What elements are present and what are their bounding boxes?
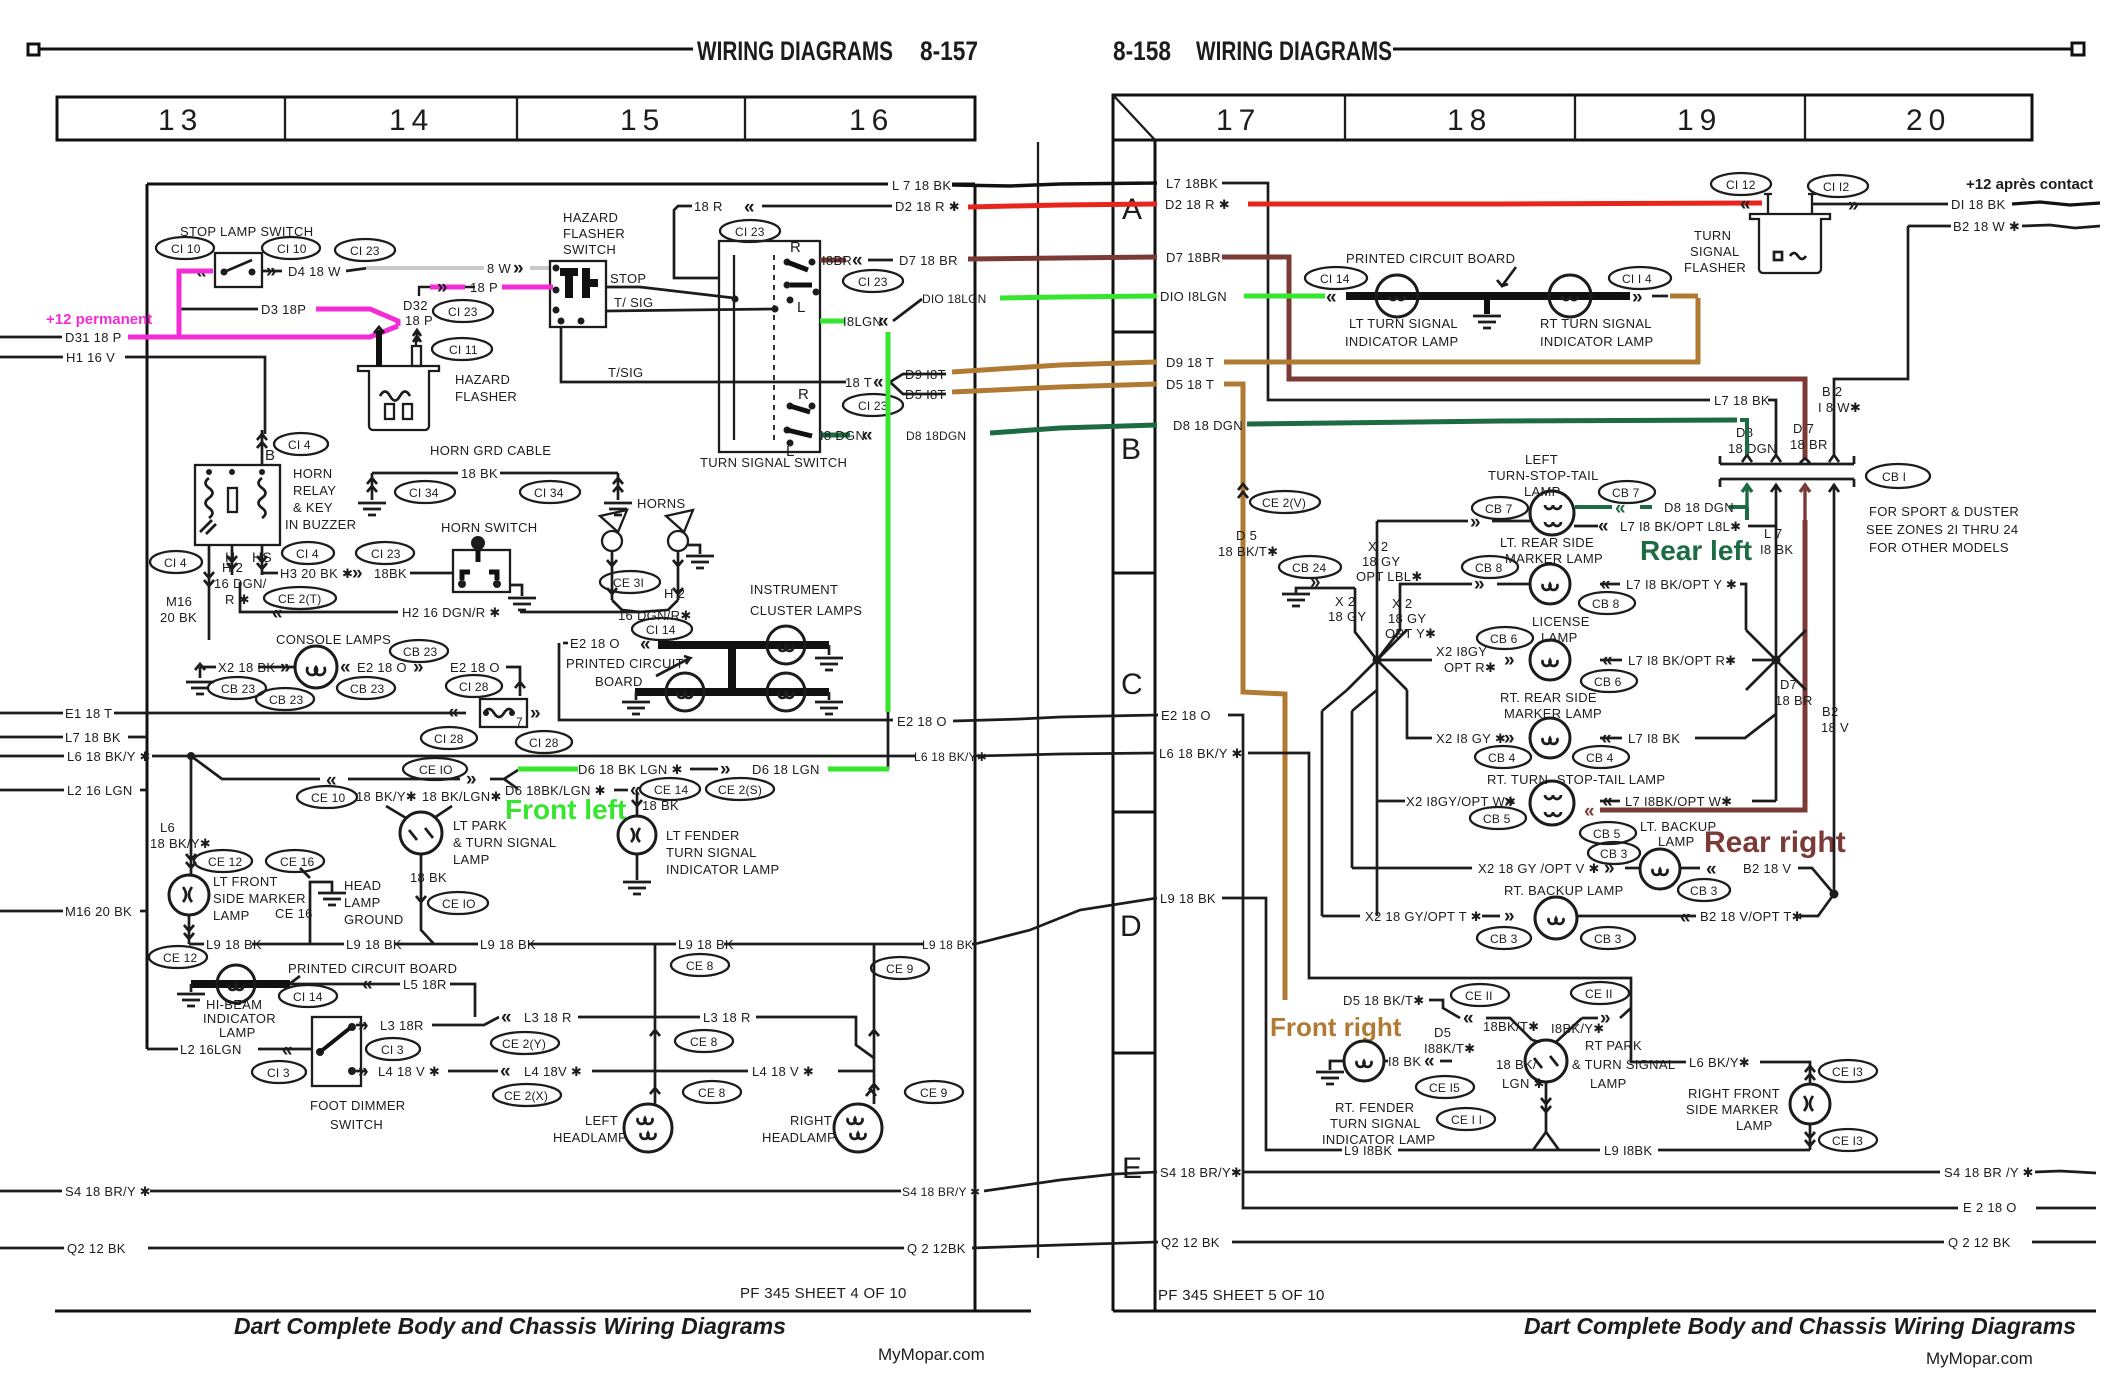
svg-text:L2 16LGN: L2 16LGN (180, 1042, 242, 1057)
connector CI 3 (366, 1038, 420, 1060)
svg-text:7: 7 (516, 715, 523, 729)
svg-text:CE 16: CE 16 (275, 906, 313, 921)
svg-text:19: 19 (1677, 104, 1722, 137)
svg-text:B2: B2 (1822, 704, 1839, 719)
svg-text:«: « (744, 197, 755, 218)
wire E2 18O to cluster (559, 643, 893, 720)
svg-text:RELAY: RELAY (293, 483, 336, 498)
svg-text:CB 8: CB 8 (1475, 561, 1503, 575)
svg-text:BOARD: BOARD (595, 674, 643, 689)
svg-text:X2 18 GY /OPT V ✱: X2 18 GY /OPT V ✱ (1478, 861, 1600, 876)
svg-text:L9 18 BK: L9 18 BK (1160, 891, 1216, 906)
svg-text:H3 20 BK ✱: H3 20 BK ✱ (280, 566, 353, 581)
turn signal switch (719, 241, 820, 452)
svg-text:GROUND: GROUND (344, 912, 404, 927)
wire L9 18BK crossing (975, 898, 1157, 944)
svg-text:E 2 18 O: E 2 18 O (1963, 1200, 2017, 1215)
svg-text:INSTRUMENT: INSTRUMENT (750, 582, 838, 597)
svg-text:LAMP: LAMP (1590, 1076, 1627, 1091)
svg-text:CI 23: CI 23 (371, 547, 401, 561)
wire L6 18BK/Y crossing (975, 753, 1156, 756)
ground right of horn cable (604, 503, 632, 515)
wire D31 18P left stub (0, 336, 62, 339)
relay pin H (227, 545, 237, 575)
svg-text:CI 23: CI 23 (858, 275, 888, 289)
svg-text:«: « (1584, 801, 1595, 822)
svg-text:LT FRONT: LT FRONT (213, 874, 278, 889)
svg-text:FLASHER: FLASHER (455, 389, 517, 404)
rear lamp left rail (1376, 521, 1379, 916)
svg-text:CE 9: CE 9 (920, 1086, 948, 1100)
svg-text:I8 DGN: I8 DGN (820, 428, 865, 443)
svg-text:13: 13 (158, 104, 203, 137)
svg-text:L9 18 BK: L9 18 BK (678, 937, 734, 952)
svg-text:IN BUZZER: IN BUZZER (285, 517, 356, 532)
svg-text:CB 7: CB 7 (1485, 502, 1513, 516)
svg-text:18 P: 18 P (470, 280, 498, 295)
wire B2 below CB1 (1833, 520, 1836, 894)
wire 18W grey (346, 268, 368, 271)
svg-text:D5 18 BK/T✱: D5 18 BK/T✱ (1343, 993, 1424, 1008)
svg-text:8-157: 8-157 (920, 36, 978, 66)
svg-text:«: « (448, 702, 459, 723)
svg-text:»: » (1848, 195, 1859, 216)
svg-text:B2 18 V: B2 18 V (1743, 861, 1791, 876)
svg-text:Q2 12 BK: Q2 12 BK (67, 1241, 126, 1256)
svg-text:»: » (266, 261, 277, 282)
svg-text:CB 23: CB 23 (269, 693, 303, 707)
svg-text:FLASHER: FLASHER (563, 226, 625, 241)
wire D6 assembly (191, 756, 460, 779)
svg-text:L: L (797, 299, 806, 316)
connector CI 14 (279, 985, 337, 1007)
connector CE 10 upper (403, 758, 467, 780)
wire H1 16V (0, 356, 63, 359)
connector CB 4 left (1475, 746, 1531, 768)
svg-text:LICENSE: LICENSE (1532, 614, 1590, 629)
svg-text:LEFT: LEFT (585, 1113, 618, 1128)
connector CI 4 top of horn relay (274, 433, 328, 455)
svg-text:CE I3: CE I3 (1832, 1065, 1863, 1079)
svg-text:CI 23: CI 23 (858, 399, 888, 413)
lt fender turn signal indicator lamp (632, 792, 642, 816)
printed circuit board bus lower (635, 688, 829, 696)
svg-text:«: « (282, 1040, 293, 1061)
svg-text:CE I I: CE I I (1451, 1113, 1482, 1127)
svg-text:L4 18V ✱: L4 18V ✱ (524, 1064, 582, 1079)
wire D2 18R crossing (762, 205, 892, 208)
connector CB 23 ovals (208, 677, 266, 699)
svg-text:R ✱: R ✱ (225, 592, 250, 607)
svg-text:18 R: 18 R (694, 199, 723, 214)
connector CE 2(S) (706, 778, 774, 800)
connector CI 4 left (150, 551, 202, 573)
horn relay and key-in buzzer (195, 465, 280, 545)
svg-text:CB 23: CB 23 (350, 682, 384, 696)
svg-text:CE 2(S): CE 2(S) (718, 783, 762, 797)
svg-text:Front right: Front right (1270, 1012, 1402, 1042)
connector CE 15 (1416, 1076, 1474, 1098)
svg-text:S4 18 BR/Y✱: S4 18 BR/Y✱ (1160, 1165, 1242, 1180)
wire L5 18R (290, 983, 400, 986)
svg-text:«: « (630, 780, 641, 801)
svg-text:RT TURN SIGNAL: RT TURN SIGNAL (1540, 316, 1652, 331)
svg-text:LAMP: LAMP (213, 908, 250, 923)
svg-text:X2 I8GY: X2 I8GY (1436, 644, 1487, 659)
wire D6 18BK LGN green upper (518, 767, 578, 772)
svg-text:C: C (1121, 668, 1149, 701)
svg-text:X 2: X 2 (1368, 539, 1388, 554)
svg-text:CI 28: CI 28 (459, 680, 489, 694)
svg-text:TURN SIGNAL SWITCH: TURN SIGNAL SWITCH (700, 455, 847, 470)
wire M16 20BK left stub (0, 910, 63, 913)
connector CE 10 (428, 892, 488, 914)
svg-text:I8LGN: I8LGN (843, 314, 882, 329)
connector CE 10 left lower (297, 786, 357, 808)
svg-text:S4 18 BR/Y ✱: S4 18 BR/Y ✱ (65, 1184, 151, 1199)
connector CB 8 left (1462, 556, 1518, 578)
svg-text:E2 18 O: E2 18 O (357, 660, 407, 675)
lt turn signal indicator lamp (1376, 275, 1418, 317)
svg-text:L9 18 BK: L9 18 BK (346, 937, 402, 952)
svg-text:B: B (265, 447, 275, 464)
svg-text:«: « (500, 1061, 511, 1082)
svg-text:»: » (1310, 572, 1321, 593)
svg-text:LAMP: LAMP (1736, 1118, 1773, 1133)
svg-text:«: « (1740, 194, 1751, 215)
ground left of horn cable (358, 503, 386, 515)
svg-text:CI 34: CI 34 (534, 486, 564, 500)
svg-text:«: « (362, 974, 373, 995)
connector CI 4 mid (282, 542, 334, 564)
svg-text:SIDE MARKER: SIDE MARKER (1686, 1102, 1779, 1117)
svg-text:PRINTED CIRCUIT BOARD: PRINTED CIRCUIT BOARD (288, 961, 457, 976)
svg-text:«: « (862, 425, 873, 446)
svg-text:D9 18 T: D9 18 T (1166, 355, 1214, 370)
svg-text:CE 2(V): CE 2(V) (1262, 496, 1306, 510)
svg-text:T/SIG: T/SIG (608, 365, 643, 380)
connector CI 14 (632, 618, 692, 640)
connector CB 5 right (1580, 822, 1636, 844)
svg-text:E2 18 O: E2 18 O (1161, 708, 1211, 723)
svg-text:CI 23: CI 23 (350, 244, 380, 258)
connector CB 3 left (1477, 927, 1531, 949)
svg-text:INDICATOR LAMP: INDICATOR LAMP (1540, 334, 1654, 349)
svg-text:SWITCH: SWITCH (563, 242, 616, 257)
wire 18BR exit (820, 258, 846, 263)
svg-text:«: « (1598, 516, 1609, 537)
connector CI 23 mid (356, 542, 414, 564)
svg-text:L7 I8 BK/OPT L8L✱: L7 I8 BK/OPT L8L✱ (1620, 519, 1741, 534)
svg-text:L6: L6 (160, 820, 175, 835)
svg-text:«: « (1706, 859, 1717, 880)
svg-text:MARKER LAMP: MARKER LAMP (1505, 551, 1603, 566)
svg-text:D7 18BR: D7 18BR (1166, 250, 1221, 265)
svg-text:CE 10: CE 10 (311, 791, 345, 805)
svg-text:«: « (852, 250, 863, 271)
svg-text:& TURN SIGNAL: & TURN SIGNAL (1572, 1057, 1675, 1072)
svg-text:L3 18 R: L3 18 R (703, 1010, 751, 1025)
right front side marker lamp (1790, 1084, 1830, 1124)
svg-text:Rear right: Rear right (1704, 826, 1846, 859)
svg-text:CI 14: CI 14 (1320, 272, 1350, 286)
svg-text:CE 9: CE 9 (886, 962, 914, 976)
svg-text:H2 16 DGN/R ✱: H2 16 DGN/R ✱ (402, 605, 501, 620)
svg-text:B2 18 V/OPT T✱: B2 18 V/OPT T✱ (1700, 909, 1803, 924)
svg-text:«: « (1424, 1051, 1435, 1072)
svg-text:I8BR: I8BR (822, 253, 852, 268)
svg-text:WIRING DIAGRAMS: WIRING DIAGRAMS (1196, 36, 1392, 66)
svg-text:X2 18 GY/OPT T ✱: X2 18 GY/OPT T ✱ (1365, 909, 1482, 924)
cluster lamp lower right (767, 673, 805, 711)
svg-text:«: « (326, 770, 337, 791)
green vertical trunk (886, 332, 891, 712)
svg-text:RT. FENDER: RT. FENDER (1335, 1100, 1414, 1115)
wire B2 18W (1908, 225, 1951, 228)
svg-text:LAMP: LAMP (1658, 834, 1695, 849)
svg-text:HAZARD: HAZARD (563, 210, 618, 225)
svg-text:17: 17 (1216, 104, 1261, 137)
svg-text:»: » (280, 657, 291, 678)
svg-text:CI 3: CI 3 (267, 1066, 290, 1080)
svg-text:SIDE MARKER: SIDE MARKER (213, 891, 306, 906)
rt fender turn signal indicator lamp (1344, 1041, 1384, 1081)
svg-text:18BK/T✱: 18BK/T✱ (1483, 1019, 1539, 1034)
svg-text:CE 14: CE 14 (654, 783, 688, 797)
wire H3 20BK (262, 573, 278, 575)
ground left lower (635, 692, 638, 700)
svg-text:D8 18DGN: D8 18DGN (906, 429, 966, 443)
svg-text:S4 18 BR /Y ✱: S4 18 BR /Y ✱ (1944, 1165, 2034, 1180)
svg-text:L 7 18 BK: L 7 18 BK (892, 178, 951, 193)
svg-text:B 2: B 2 (1822, 384, 1842, 399)
svg-text:L4 18 V ✱: L4 18 V ✱ (378, 1064, 440, 1079)
svg-text:CE 16: CE 16 (280, 855, 314, 869)
svg-text:OPT LBL✱: OPT LBL✱ (1356, 569, 1423, 584)
connector CE 31 (600, 571, 660, 593)
connector CE 11 right (1571, 982, 1629, 1004)
connector CE 13 lower (1819, 1129, 1877, 1151)
svg-text:L7 I8BK/OPT W✱: L7 I8BK/OPT W✱ (1625, 794, 1732, 809)
svg-text:HAZARD: HAZARD (455, 372, 510, 387)
horn right (666, 510, 693, 532)
svg-text:DIO I8LGN: DIO I8LGN (1160, 289, 1227, 304)
dark green pin stem (1740, 420, 1747, 455)
svg-text:HORN: HORN (293, 466, 332, 481)
svg-text:X 2: X 2 (1392, 596, 1412, 611)
svg-text:15: 15 (620, 104, 665, 137)
ground right lower (828, 692, 831, 700)
svg-text:8-158: 8-158 (1113, 36, 1171, 66)
wire H2 16DGN/R run (240, 582, 640, 612)
svg-text:Rear left: Rear left (1640, 535, 1752, 566)
svg-text:D8 18 DGN: D8 18 DGN (1664, 500, 1734, 515)
connector CB 3 (1588, 842, 1640, 864)
svg-text:LT. REAR SIDE: LT. REAR SIDE (1500, 535, 1594, 550)
svg-text:D7 18 BR: D7 18 BR (899, 253, 958, 268)
svg-text:PRINTED CIRCUIT: PRINTED CIRCUIT (566, 656, 684, 671)
svg-text:PF 345 SHEET 5 OF 10: PF 345 SHEET 5 OF 10 (1158, 1287, 1325, 1304)
svg-text:DI 18 BK: DI 18 BK (1951, 197, 2005, 212)
svg-text:PF 345 SHEET 4 OF 10: PF 345 SHEET 4 OF 10 (740, 1285, 907, 1302)
svg-text:CI 3: CI 3 (381, 1043, 404, 1057)
connector CI 23 (433, 300, 493, 322)
connector CB 8 right (1579, 592, 1635, 614)
svg-text:18 DGN: 18 DGN (1728, 441, 1777, 456)
svg-text:TURN-STOP-TAIL: TURN-STOP-TAIL (1488, 468, 1599, 483)
svg-text:CB 5: CB 5 (1483, 812, 1511, 826)
svg-text:«: « (340, 657, 351, 678)
svg-text:LT FENDER: LT FENDER (666, 828, 740, 843)
svg-text:S4 18 BR/Y ✱: S4 18 BR/Y ✱ (902, 1185, 980, 1199)
svg-text:18 BK: 18 BK (461, 466, 498, 481)
svg-text:CB 3: CB 3 (1594, 932, 1622, 946)
right page zone box (1113, 95, 2032, 140)
svg-text:»: » (352, 563, 363, 584)
wire D31 18P magenta run (128, 326, 398, 337)
rt park lamp drop to L9 (1533, 1082, 1559, 1150)
svg-text:CB 23: CB 23 (221, 682, 255, 696)
svg-text:CB 4: CB 4 (1488, 751, 1516, 765)
left page zone box (57, 97, 975, 140)
svg-text:18 BK/Y✱: 18 BK/Y✱ (150, 836, 211, 851)
svg-text:D8: D8 (1736, 425, 1753, 440)
svg-text:18 BK: 18 BK (410, 870, 447, 885)
svg-text:«: « (1680, 907, 1691, 928)
head lamp ground (310, 882, 332, 944)
connector CI 23 (335, 239, 395, 261)
connector CB 5 left (1470, 807, 1526, 829)
connector CE 2(V) (1250, 491, 1320, 513)
left headlamp (624, 1104, 672, 1152)
connector CI 34 (520, 481, 580, 503)
svg-text:CI 23: CI 23 (448, 305, 478, 319)
svg-text:L7 18 BK: L7 18 BK (1714, 393, 1770, 408)
svg-text:CI 10: CI 10 (277, 242, 307, 256)
svg-text:L9 I8BK: L9 I8BK (1604, 1143, 1652, 1158)
console lamp (295, 646, 337, 688)
wire D8 18DGN to left tail lamp (1729, 507, 1747, 520)
printed circuit board bus vertical (728, 645, 736, 692)
svg-text:RT. REAR SIDE: RT. REAR SIDE (1500, 690, 1597, 705)
svg-text:LT. BACKUP: LT. BACKUP (1640, 819, 1716, 834)
svg-text:CB 3: CB 3 (1600, 847, 1628, 861)
connector CE 13 (1819, 1060, 1877, 1082)
svg-text:L5 18R: L5 18R (403, 977, 447, 992)
right page margin line of left page (1037, 142, 1039, 1258)
svg-text:CI I 4: CI I 4 (1622, 272, 1652, 286)
svg-text:L7 I8 BK/OPT R✱: L7 I8 BK/OPT R✱ (1628, 653, 1736, 668)
svg-text:CE 8: CE 8 (698, 1086, 726, 1100)
svg-text:L9 18 BK: L9 18 BK (206, 937, 262, 952)
connector CI 14 left (1305, 267, 1367, 289)
connector CI 3 (252, 1061, 306, 1083)
svg-text:INDICATOR LAMP: INDICATOR LAMP (666, 862, 780, 877)
svg-text:B: B (1121, 433, 1147, 466)
svg-text:»: » (437, 277, 448, 298)
svg-text:D2 18 R ✱: D2 18 R ✱ (1165, 197, 1230, 212)
connector CI 12 (1711, 173, 1771, 195)
right page zone band (1112, 95, 1115, 1311)
svg-text:I8BK/Y✱: I8BK/Y✱ (1551, 1021, 1604, 1036)
svg-text:D2 18 R ✱: D2 18 R ✱ (895, 199, 960, 214)
rt turn signal indicator lamp (1549, 275, 1591, 317)
svg-text:STOP: STOP (610, 271, 646, 286)
svg-text:CI 4: CI 4 (288, 438, 311, 452)
svg-text:CE 12: CE 12 (163, 951, 197, 965)
connector CE 2(T) (264, 587, 336, 609)
svg-text:E2 18 O: E2 18 O (450, 660, 500, 675)
svg-text:FOR SPORT & DUSTER: FOR SPORT & DUSTER (1869, 504, 2019, 519)
connector CI 23 top (720, 220, 780, 242)
connector CE 8 (671, 954, 729, 976)
svg-text:18 BK: 18 BK (642, 798, 679, 813)
svg-text:CE 8: CE 8 (690, 1035, 718, 1049)
svg-text:SEE ZONES 2I THRU 24: SEE ZONES 2I THRU 24 (1866, 522, 2018, 537)
svg-text:Front left: Front left (505, 794, 626, 825)
connector CI 12 (1808, 175, 1868, 197)
svg-text:CI 4: CI 4 (164, 556, 187, 570)
wire L7 OPT LBL (1748, 525, 1776, 528)
wire magenta from stop lamp switch (179, 271, 213, 338)
cluster lamp lower left (666, 673, 704, 711)
svg-text:X 2: X 2 (1335, 594, 1355, 609)
svg-text:»: » (1604, 858, 1615, 879)
svg-text:18 BR: 18 BR (1775, 693, 1813, 708)
connector CI 23 right (843, 270, 903, 292)
svg-text:»: » (720, 759, 731, 780)
svg-text:L6 BK/Y✱: L6 BK/Y✱ (1689, 1055, 1750, 1070)
svg-text:14: 14 (389, 104, 434, 137)
left headlamp drop (650, 944, 660, 1105)
svg-text:18 BK/: 18 BK/ (1496, 1057, 1537, 1072)
svg-text:HI-BEAM: HI-BEAM (206, 997, 262, 1012)
svg-text:«: « (1602, 791, 1613, 812)
svg-text:E2 18 O: E2 18 O (897, 714, 947, 729)
svg-text:E2 18 O: E2 18 O (570, 636, 620, 651)
wire L4 18V (356, 1070, 366, 1073)
svg-text:I8 BK: I8 BK (1388, 1054, 1421, 1069)
svg-text:CI 23: CI 23 (735, 225, 765, 239)
switch contacts lower (787, 403, 794, 410)
svg-text:»: » (1632, 287, 1643, 308)
svg-text:RIGHT: RIGHT (790, 1113, 832, 1128)
cluster lamp upper (767, 626, 805, 664)
svg-text:D3 18P: D3 18P (261, 302, 306, 317)
svg-text:B2 18 W ✱: B2 18 W ✱ (1953, 219, 2020, 234)
relay pin HS (257, 545, 267, 575)
right page bottom rule (1113, 1310, 2096, 1313)
wire T/SIG lower (561, 327, 846, 382)
wire H2 16DGN/R junction (612, 600, 678, 612)
svg-text:HORN GRD CABLE: HORN GRD CABLE (430, 443, 551, 458)
svg-text:»: » (513, 258, 524, 279)
wire L2 16LGN left stub (0, 789, 64, 792)
svg-text:18 BK/T✱: 18 BK/T✱ (1218, 544, 1278, 559)
svg-text:L7 18BK: L7 18BK (1166, 176, 1218, 191)
svg-text:18 GY: 18 GY (1328, 609, 1366, 624)
svg-text:18 GY: 18 GY (1388, 611, 1426, 626)
svg-text:CI 28: CI 28 (434, 732, 464, 746)
printed circuit bus (1346, 292, 1630, 300)
svg-text:CB I: CB I (1882, 470, 1906, 484)
lt rear side marker lamp (1530, 564, 1570, 604)
wire Q2 12BK (0, 1247, 64, 1250)
svg-text:R: R (790, 239, 801, 256)
lt park and turn signal lamp (386, 806, 452, 818)
svg-text:«: « (878, 311, 889, 332)
wire 18R (674, 206, 719, 278)
